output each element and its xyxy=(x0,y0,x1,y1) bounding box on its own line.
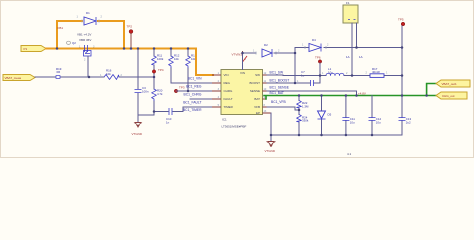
IC pin stubs right xyxy=(263,75,272,113)
svg-text:TP4: TP4 xyxy=(158,68,164,72)
svg-text:Q2: Q2 xyxy=(72,41,76,45)
svg-text:VBR 36V: VBR 36V xyxy=(79,38,91,42)
inductor L1 xyxy=(322,67,348,76)
wire F1 pin B xyxy=(356,23,358,48)
svg-text:EP: EP xyxy=(256,111,260,115)
svg-text:VTGND: VTGND xyxy=(132,132,143,136)
resistor R19 xyxy=(56,67,62,78)
svg-text:330k: 330k xyxy=(302,119,309,123)
capacitor C7 xyxy=(297,70,314,86)
svg-text:LT3651IMSE#PBF: LT3651IMSE#PBF xyxy=(222,124,247,128)
svg-text:10k: 10k xyxy=(174,57,179,61)
wire top boost-bat (D4 row) xyxy=(295,47,402,49)
svg-text:10k: 10k xyxy=(106,72,111,76)
svg-text:BAT: BAT xyxy=(254,97,260,101)
svg-text:VIN: VIN xyxy=(224,73,229,77)
port VBAT_out1 xyxy=(436,80,470,87)
svg-text:TIMER: TIMER xyxy=(224,105,234,109)
svg-text:VBAT_out1: VBAT_out1 xyxy=(442,82,457,86)
test point TP2 xyxy=(127,25,133,49)
wire main VIN bus (orange) xyxy=(46,48,196,50)
svg-text:10u: 10u xyxy=(350,120,355,124)
svg-text:BC1_CHRG: BC1_CHRG xyxy=(184,92,202,96)
svg-text:CHRG: CHRG xyxy=(224,89,233,93)
svg-text:FAULT: FAULT xyxy=(224,97,233,101)
svg-text:BC1_VFB: BC1_VFB xyxy=(271,100,286,104)
svg-text:1A: 1A xyxy=(346,55,350,59)
svg-text:VIN: VIN xyxy=(240,71,245,75)
svg-text:40mR: 40mR xyxy=(372,70,380,74)
svg-text:+4.8V: +4.8V xyxy=(358,92,366,96)
wire VIN drop (orange) xyxy=(196,49,213,76)
svg-text:SW: SW xyxy=(255,73,260,77)
capacitor C13 xyxy=(399,117,412,124)
svg-text:D4: D4 xyxy=(312,38,316,42)
capacitor C12 xyxy=(369,96,382,136)
test point TP3 xyxy=(174,86,185,93)
svg-text:D2: D2 xyxy=(264,43,268,47)
diode D2 xyxy=(253,43,280,57)
svg-text:BC1_BOOST: BC1_BOOST xyxy=(270,79,290,83)
svg-text:2u2: 2u2 xyxy=(406,120,411,124)
wire IC top pin xyxy=(243,53,257,70)
svg-text:VB1 +4.2V: VB1 +4.2V xyxy=(77,33,91,37)
svg-text:FB1: FB1 xyxy=(58,26,64,30)
svg-text:VTGND: VTGND xyxy=(265,149,276,153)
svg-text:4.7k: 4.7k xyxy=(157,92,163,96)
diode D1 xyxy=(77,11,103,25)
ground VTGND (left) xyxy=(132,115,143,136)
wire ground rail xyxy=(271,134,402,136)
diode D4 xyxy=(302,38,329,52)
sheet frame xyxy=(1,1,474,158)
svg-text:TP6: TP6 xyxy=(315,56,321,60)
test point TP4 xyxy=(152,68,164,73)
port VBAT_meas xyxy=(3,75,35,81)
svg-text:F1: F1 xyxy=(346,1,350,5)
wire VFB row xyxy=(267,107,299,110)
svg-text:P1: P1 xyxy=(24,47,28,51)
wire D2 to boost node xyxy=(274,48,295,84)
svg-text:BOOST: BOOST xyxy=(249,81,260,85)
svg-text:TP5: TP5 xyxy=(398,18,404,22)
svg-text:BC1_SENSE: BC1_SENSE xyxy=(270,85,290,89)
wire TIMER row xyxy=(183,106,212,108)
resistor R12 xyxy=(169,49,180,84)
wire VBAT_meas net xyxy=(35,76,154,78)
svg-text:BC1_BAT: BC1_BAT xyxy=(270,91,284,95)
svg-text:10u: 10u xyxy=(376,120,381,124)
svg-text:D1: D1 xyxy=(86,11,90,15)
wire BAT (green) xyxy=(264,84,436,100)
net label VTVIN3 xyxy=(231,51,247,62)
svg-text:IC1: IC1 xyxy=(222,118,227,122)
capacitor C3 xyxy=(135,49,149,116)
capacitor C11 xyxy=(342,96,355,136)
svg-text:CHG_out: CHG_out xyxy=(442,94,455,98)
wire diode-loop (orange) xyxy=(57,21,124,49)
wire Q2 gate down xyxy=(87,57,89,78)
IC pin stubs left xyxy=(212,75,221,107)
svg-text:1A: 1A xyxy=(359,55,363,59)
test point TP6 xyxy=(315,56,322,84)
svg-text:100n: 100n xyxy=(142,90,149,94)
diode D5 (to gnd) xyxy=(318,96,332,136)
test point TP5 xyxy=(398,18,405,26)
svg-text:D5: D5 xyxy=(328,113,332,117)
svg-text:VBAT_meas: VBAT_meas xyxy=(5,76,22,80)
wire CHRG row xyxy=(176,90,212,92)
svg-text:100k: 100k xyxy=(157,57,164,61)
wire F1 pin A xyxy=(351,23,353,76)
svg-text:4.1: 4.1 xyxy=(347,152,352,156)
resistor R17 (sense) xyxy=(366,67,389,78)
svg-text:VFB: VFB xyxy=(254,105,260,109)
svg-text:BC1_TIMER: BC1_TIMER xyxy=(183,108,202,112)
wire REG row xyxy=(171,82,212,84)
svg-text:1n: 1n xyxy=(166,121,170,125)
wire TP5 / BAT column xyxy=(401,26,403,135)
port CHG_out xyxy=(436,92,467,99)
resistor R16 xyxy=(100,69,123,80)
svg-text:REG: REG xyxy=(224,81,231,85)
wire EP to ground xyxy=(270,113,272,142)
svg-text:BC1_FAULT: BC1_FAULT xyxy=(183,100,201,104)
svg-text:1.3M: 1.3M xyxy=(302,104,309,108)
wire timer net xyxy=(154,107,183,112)
IC IC1 LT3651IMSE xyxy=(221,70,263,129)
resistor R22 xyxy=(297,96,309,111)
svg-text:BC1_SW: BC1_SW xyxy=(270,71,284,75)
resistor R13 xyxy=(186,49,197,92)
svg-text:VTVIN3: VTVIN3 xyxy=(231,53,242,57)
svg-text:BC1_REG: BC1_REG xyxy=(186,85,202,89)
svg-text:TP2: TP2 xyxy=(127,25,133,29)
wire FAULT row xyxy=(190,98,212,100)
resistor R20 xyxy=(152,89,163,116)
wire SW chain xyxy=(267,74,402,77)
capacitor C10 xyxy=(166,108,172,125)
svg-text:TP3: TP3 xyxy=(179,86,185,90)
wire gnd rail left xyxy=(138,114,154,116)
wire SENSE row xyxy=(267,91,357,96)
transistor Q2 (P-FET inline on bus) xyxy=(67,41,96,61)
svg-text:SENSE: SENSE xyxy=(250,89,260,93)
wire BOOST row xyxy=(267,82,320,84)
port P1 (input) xyxy=(21,46,46,52)
resistor R24 xyxy=(297,110,309,135)
svg-text:BC1_VIN: BC1_VIN xyxy=(188,77,202,81)
resistor R11 xyxy=(152,49,164,90)
fuse F1 (box) xyxy=(343,1,358,23)
svg-text:0R: 0R xyxy=(57,70,61,74)
ground VTGND (under IC) xyxy=(265,142,276,154)
svg-text:10u: 10u xyxy=(328,71,333,75)
